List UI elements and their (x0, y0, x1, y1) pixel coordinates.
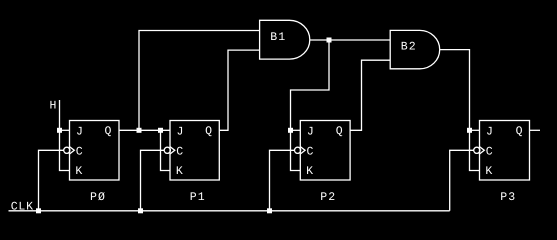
flip-flop P2 body (300, 121, 350, 181)
wire: B2 output down to P3 J/K (440, 50, 480, 171)
wire: B1 output to B2 input 1 (310, 39, 390, 41)
svg-text:K: K (306, 165, 313, 178)
svg-text:P3: P3 (500, 191, 516, 204)
flip-flop P0 clock bubble (64, 147, 70, 153)
wire: Q1 output riser to B1 input 2 (219, 50, 259, 130)
svg-text:C: C (307, 146, 314, 159)
svg-text:C: C (486, 146, 493, 159)
svg-text:B2: B2 (401, 41, 417, 54)
wire: branch to P2 J input (291, 129, 301, 131)
wire: CLK riser to P3 C input (450, 150, 474, 211)
flip-flop P3 body (480, 121, 530, 181)
svg-text:C: C (76, 146, 83, 159)
svg-text:Q: Q (516, 125, 523, 138)
wire: Q0 branch up to B1 input 1 (139, 31, 260, 131)
wire: CLK branch to P1 C input (141, 150, 165, 211)
node: junction J3/K3 (467, 128, 472, 133)
wire: branch to P3 J input (470, 129, 480, 131)
wire: Q3 output stub (530, 129, 541, 131)
node: junction Q0/B1 (137, 128, 142, 133)
node: junction Q0/K1 (158, 128, 163, 133)
node: junction J2/K2 (288, 128, 293, 133)
flip-flop P3 clock wedge (480, 147, 485, 154)
node: junction CLK/P2-C (267, 208, 272, 213)
wire: CLK branch to P2 C input (270, 150, 295, 211)
svg-text:Q: Q (336, 125, 343, 138)
svg-text:B1: B1 (270, 31, 286, 44)
flip-flop P2 clock wedge (300, 147, 305, 154)
flip-flop P1 clock bubble (164, 147, 170, 153)
flip-flop P1 body (170, 121, 219, 181)
wire: H branch to J0 (60, 129, 70, 131)
node: junction H/J0 (57, 128, 62, 133)
svg-text:Q: Q (104, 125, 111, 138)
wire: H net vertical feeding J0 and K0 (60, 100, 70, 171)
svg-text:J: J (76, 126, 83, 139)
node: junction CLK/P0-C (36, 208, 41, 213)
svg-text:H: H (50, 100, 57, 113)
wire: B1 output branch down to P2 J/K (291, 40, 330, 171)
flip-flop P0 clock wedge (70, 147, 75, 154)
svg-text:K: K (75, 165, 82, 178)
wire: Q0 output to P1 J input (119, 129, 170, 131)
svg-text:Q: Q (205, 125, 212, 138)
wire: Q2 output riser to B2 input 2 (350, 60, 390, 130)
svg-text:K: K (176, 165, 183, 178)
wire: Q0 branch down to P1 K input (161, 130, 171, 170)
svg-text:P2: P2 (320, 191, 336, 204)
svg-text:P1: P1 (190, 191, 206, 204)
flip-flop P3 clock bubble (474, 147, 480, 153)
svg-text:CLK: CLK (11, 201, 34, 214)
flip-flop P2 clock bubble (295, 147, 301, 153)
svg-text:J: J (177, 126, 184, 139)
svg-text:J: J (486, 126, 493, 139)
svg-text:K: K (485, 165, 492, 178)
svg-text:PØ: PØ (90, 191, 106, 204)
wire: CLK main horizontal (9, 210, 450, 212)
flip-flop P0 body (70, 121, 120, 181)
AND gate B2 outline (390, 30, 439, 68)
svg-text:C: C (176, 146, 183, 159)
node: junction CLK/P1-C (138, 208, 143, 213)
wire: CLK branch to P0 C input (39, 150, 64, 211)
svg-text:J: J (307, 126, 314, 139)
AND gate B1 outline (260, 20, 310, 59)
flip-flop P1 clock wedge (170, 147, 175, 154)
node: junction B1out/B2 (327, 38, 332, 43)
